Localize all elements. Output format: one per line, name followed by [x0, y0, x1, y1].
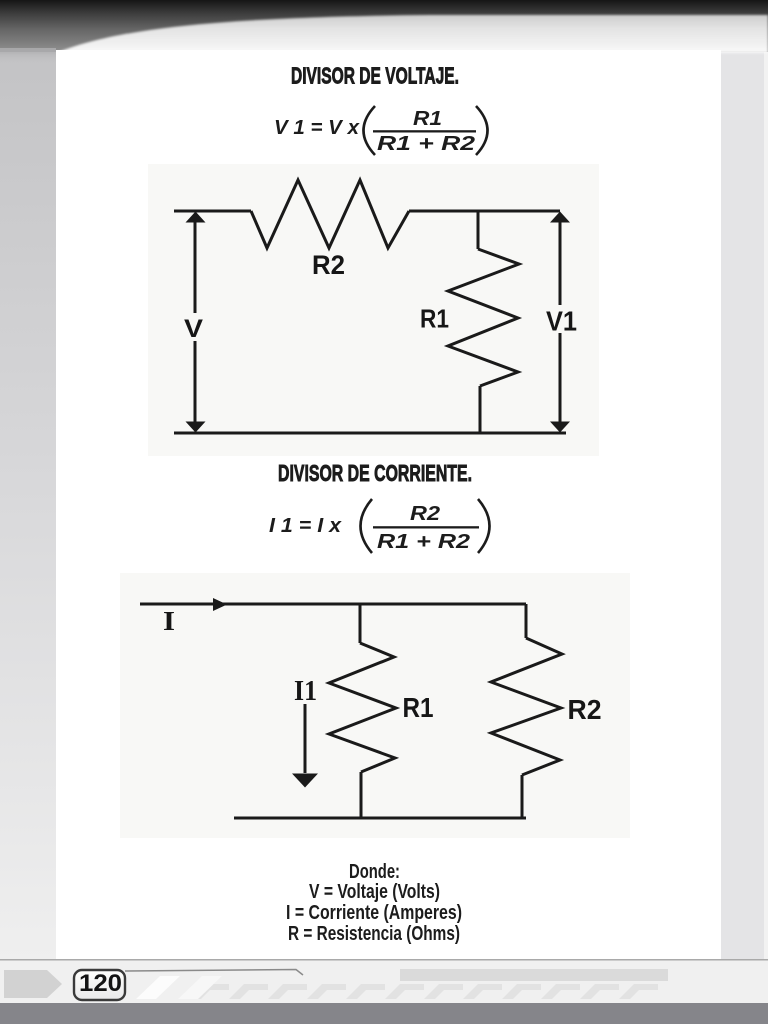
- svg-text:DIVISOR DE VOLTAJE.: DIVISOR DE VOLTAJE.: [291, 63, 459, 89]
- arrowhead V1 top: [550, 212, 570, 223]
- wire: resistor R1 to bottom rail: [479, 386, 482, 433]
- formula1 close paren: [476, 106, 488, 155]
- svg-text:R = Resistencia (Ohms): R = Resistencia (Ohms): [288, 923, 460, 945]
- wire: circuit2 node B drop to resistor R1: [359, 604, 362, 643]
- svg-text:R2: R2: [410, 503, 440, 525]
- formula 2: I1 = I x ( R2 / (R1+R2) ): [269, 499, 490, 553]
- wire: node A drop to resistor R1: [477, 211, 480, 249]
- page white top edge: [56, 50, 721, 68]
- footer chevron pattern: [190, 984, 658, 999]
- left margin blend under band: [0, 48, 56, 65]
- svg-text:R1: R1: [420, 304, 449, 334]
- svg-text:DIVISOR DE CORRIENTE.: DIVISOR DE CORRIENTE.: [278, 460, 472, 486]
- current I1 arrow line: [304, 704, 307, 773]
- page number line: [125, 970, 303, 976]
- svg-text:I: I: [163, 606, 175, 636]
- arrowhead V bottom: [186, 422, 206, 433]
- svg-text:I = Corriente (Amperes): I = Corriente (Amperes): [286, 902, 462, 924]
- wire: circuit2 resistor R2 to bottom rail: [521, 775, 524, 818]
- node V line (left, split for label): [194, 222, 197, 424]
- circuit 2 background box: [120, 573, 630, 838]
- resistor R1 (vertical zigzag): [448, 249, 519, 386]
- footer strip: [0, 959, 768, 961]
- footer left chevron: [4, 970, 62, 998]
- left grey margin: [0, 48, 56, 961]
- arrowhead V top: [186, 212, 206, 223]
- svg-text:120: 120: [79, 970, 122, 997]
- arrowhead current I1: [292, 774, 318, 788]
- formula2 open paren: [361, 499, 373, 553]
- svg-text:R1: R1: [403, 692, 434, 723]
- svg-text:R1 + R2: R1 + R2: [377, 531, 470, 553]
- svg-text:I1: I1: [294, 676, 317, 707]
- wire: circuit1 bottom: [174, 432, 566, 435]
- legend text block: [286, 861, 462, 945]
- bottom grey band: [0, 1003, 768, 1024]
- header dark band: [0, 0, 768, 52]
- svg-text:V = Voltaje (Volts): V = Voltaje (Volts): [309, 881, 440, 903]
- formula1 open paren: [364, 106, 376, 155]
- resistor R2 (horizontal zigzag): [251, 180, 409, 248]
- arrowhead V1 bottom: [550, 422, 570, 433]
- svg-text:R2: R2: [312, 250, 345, 280]
- wire: circuit2 bottom: [234, 817, 526, 820]
- resistor R2 circuit2 (vertical zigzag): [491, 638, 562, 775]
- wire: circuit2 corner drop to resistor R2: [525, 604, 528, 638]
- formula1 fraction bar: [373, 130, 476, 132]
- svg-text:R2: R2: [568, 694, 602, 725]
- svg-text:Donde:: Donde:: [349, 861, 400, 883]
- formula 1: V1 = V x ( R1 / (R1+R2) ): [274, 106, 488, 155]
- wire: circuit2 resistor R1 to bottom rail: [360, 772, 363, 818]
- svg-text:V1: V1: [546, 306, 577, 337]
- formula2 fraction bar: [373, 526, 479, 528]
- wire: circuit2 top: [140, 603, 526, 606]
- svg-text:I 1 = I x: I 1 = I x: [269, 515, 342, 537]
- footer white chevron highlight: [136, 976, 180, 999]
- resistor R1 circuit2 (vertical zigzag): [329, 643, 396, 772]
- circuit 1 background box: [148, 164, 599, 456]
- svg-text:V: V: [184, 315, 203, 343]
- header light curved sweep: [56, 15, 768, 53]
- formula2 close paren: [478, 499, 490, 553]
- wire: circuit1 top right segment: [409, 210, 560, 213]
- footer grey bar: [400, 969, 668, 981]
- svg-text:R1 + R2: R1 + R2: [377, 133, 475, 155]
- svg-text:R1: R1: [413, 108, 442, 130]
- right grey margin: [721, 46, 768, 964]
- arrowhead current I on top wire: [213, 598, 227, 611]
- page number box: [74, 970, 125, 1000]
- node V1 line (right): [559, 222, 562, 422]
- wire: circuit1 top left segment: [174, 210, 251, 213]
- svg-text:V 1 = V x: V 1 = V x: [274, 117, 360, 139]
